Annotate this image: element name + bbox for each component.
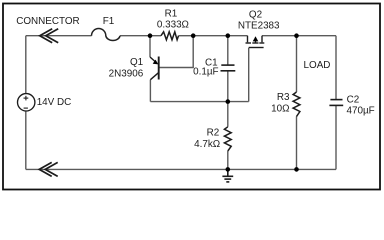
wire left rail lower (25, 111, 27, 170)
source minus (24, 107, 28, 109)
svg-text:F1: F1 (103, 16, 115, 27)
wire R3 branch upper (296, 36, 298, 92)
wire R3 branch lower (296, 117, 298, 170)
wire top rail left segment (26, 35, 92, 37)
wire C1 bottom to gate node (227, 71, 229, 127)
svg-text:CONNECTOR: CONNECTOR (16, 16, 79, 27)
svg-text:Q1: Q1 (130, 57, 144, 68)
svg-text:0.333Ω: 0.333Ω (157, 19, 189, 30)
svg-text:10Ω: 10Ω (271, 103, 289, 114)
source V1 circle (18, 94, 35, 111)
svg-text:NTE2383: NTE2383 (238, 20, 280, 31)
junction node A (148, 33, 153, 38)
junction C1 top (226, 33, 231, 38)
svg-text:470µF: 470µF (347, 105, 375, 116)
wire node A down to Q1 emitter (149, 36, 151, 57)
svg-text:0.1µF: 0.1µF (193, 67, 218, 78)
fuse F1 (92, 29, 121, 41)
connector chevron bottom (39, 162, 58, 176)
svg-text:C2: C2 (347, 95, 360, 106)
svg-text:Q2: Q2 (249, 9, 262, 20)
wire R1 to node B (179, 35, 194, 37)
svg-text:R1: R1 (165, 9, 178, 20)
wire bottom rail (26, 168, 336, 170)
svg-text:R3: R3 (277, 92, 290, 103)
wire gate node horizontal (150, 101, 248, 103)
Q1 emitter arrowhead (153, 60, 159, 65)
junction R3 bottom (294, 167, 299, 172)
wire Q1 collector down (149, 80, 151, 102)
wire fuse to node A (120, 35, 150, 37)
transistor Q1 (150, 57, 159, 80)
wire left rail upper (25, 36, 27, 94)
wire node A to R1 (150, 35, 161, 37)
svg-text:R2: R2 (207, 128, 220, 139)
wire node B to Q2 drain (193, 35, 247, 37)
capacitor C2 (329, 100, 343, 106)
resistor R2 (224, 127, 231, 151)
wire node B down to Q1 base (160, 36, 194, 68)
junction node B (191, 33, 196, 38)
junction ground node (226, 167, 231, 172)
source plus (24, 96, 29, 101)
resistor R3 (293, 92, 300, 117)
Q2 body arrow (253, 36, 259, 41)
wire Q2 source to C2 corner (262, 35, 336, 37)
resistor R1 (161, 32, 179, 40)
svg-text:2N3906: 2N3906 (109, 68, 144, 79)
svg-text:LOAD: LOAD (304, 60, 331, 71)
mosfet Q2 (246, 36, 265, 48)
wire C2 branch upper (335, 36, 337, 100)
connector chevron top (40, 29, 59, 43)
capacitor C1 (221, 65, 236, 71)
wire C2 branch lower (335, 105, 337, 169)
wire Q2 gate lead (248, 48, 250, 102)
svg-text:14V DC: 14V DC (37, 97, 72, 108)
junction gate node (226, 99, 231, 104)
wire C1 branch upper (227, 36, 229, 65)
wire R2 bottom lead (227, 151, 229, 169)
junction R3 top (294, 33, 299, 38)
svg-text:4.7kΩ: 4.7kΩ (194, 139, 220, 150)
ground (222, 169, 233, 182)
